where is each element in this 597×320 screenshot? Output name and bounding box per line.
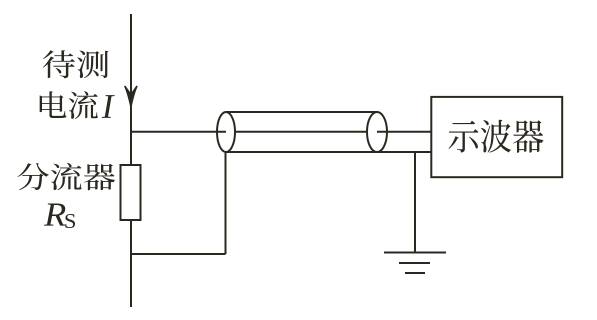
ground	[384, 253, 446, 274]
wire conductor to oscilloscope	[377, 131, 431, 133]
wire resistor bottom vertical	[130, 220, 132, 307]
wire input vertical top	[130, 14, 132, 165]
oscilloscope box U1	[431, 97, 562, 177]
label I (current)	[102, 95, 115, 118]
label R	[44, 204, 66, 226]
label 分流器	[17, 163, 115, 190]
label 示波器	[449, 120, 544, 153]
resistor RS (shunt)	[121, 165, 141, 220]
coax cable bottom line (shield)	[226, 151, 431, 153]
coax cable left ellipse	[217, 112, 235, 152]
arrow current direction	[125, 86, 137, 107]
wire center conductor inside coax	[235, 131, 367, 133]
coax cable right ellipse	[367, 112, 387, 152]
label 待测	[43, 50, 109, 78]
wire horizontal to coax left	[131, 131, 226, 133]
wire bottom horizontal return	[131, 253, 226, 255]
label 电流	[40, 91, 98, 119]
wire ground drop	[414, 152, 416, 252]
label S (subscript)	[65, 214, 75, 228]
wire shield drop at coax left	[225, 152, 227, 254]
coax cable top line	[226, 111, 377, 113]
